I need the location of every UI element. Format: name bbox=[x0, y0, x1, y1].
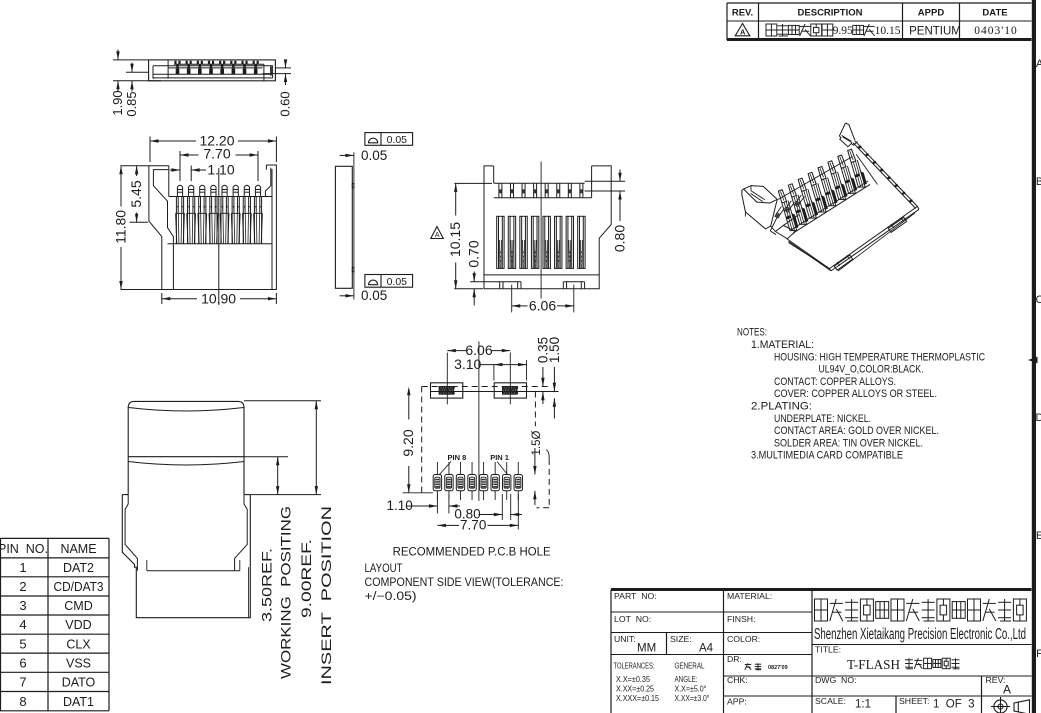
svg-text:3: 3 bbox=[19, 598, 26, 613]
svg-text:A: A bbox=[1036, 58, 1041, 70]
svg-text:X.XX=±3.0°: X.XX=±3.0° bbox=[675, 693, 710, 703]
svg-text:0.05: 0.05 bbox=[361, 288, 387, 303]
svg-text:DESCRIPTION: DESCRIPTION bbox=[798, 8, 863, 19]
svg-text:9.95: 9.95 bbox=[833, 25, 853, 37]
svg-text:0.80: 0.80 bbox=[611, 225, 627, 252]
svg-text:MATERIAL:: MATERIAL: bbox=[727, 591, 772, 601]
svg-text:B: B bbox=[1036, 176, 1041, 188]
svg-text:CONTACT AREA: GOLD OVER NICKEL: CONTACT AREA: GOLD OVER NICKEL. bbox=[774, 425, 939, 437]
svg-text:1: 1 bbox=[19, 560, 26, 575]
svg-text:A4: A4 bbox=[699, 643, 714, 655]
svg-text:7.70: 7.70 bbox=[203, 146, 230, 162]
svg-text:CHK:: CHK: bbox=[727, 675, 748, 685]
svg-text:DWG NO:: DWG NO: bbox=[815, 675, 857, 685]
svg-text:SHEET:: SHEET: bbox=[899, 696, 929, 706]
svg-text:APPD: APPD bbox=[918, 8, 945, 19]
svg-text:3.MULTIMEDIA CARD COMPATIBLE: 3.MULTIMEDIA CARD COMPATIBLE bbox=[751, 450, 903, 462]
svg-text:PART NO:: PART NO: bbox=[614, 591, 657, 601]
svg-text:0.05: 0.05 bbox=[361, 148, 387, 163]
svg-text:PIN 8: PIN 8 bbox=[448, 453, 467, 462]
svg-text:10.15: 10.15 bbox=[875, 25, 901, 37]
svg-text:F: F bbox=[1036, 648, 1041, 660]
svg-text:X.X=±0.35: X.X=±0.35 bbox=[616, 674, 650, 684]
svg-text:2: 2 bbox=[19, 579, 26, 594]
svg-text:COLOR:: COLOR: bbox=[727, 634, 760, 644]
svg-text:1.5Ø: 1.5Ø bbox=[531, 430, 543, 455]
svg-text:0.05: 0.05 bbox=[387, 134, 408, 146]
svg-text:CD/DAT3: CD/DAT3 bbox=[54, 580, 104, 594]
svg-text:1.90: 1.90 bbox=[110, 90, 125, 115]
svg-text:MM: MM bbox=[637, 643, 656, 655]
svg-text:A: A bbox=[1003, 683, 1011, 697]
svg-text:0.85: 0.85 bbox=[124, 91, 139, 116]
svg-text:HOUSING: HIGH TEMPERATURE THER: HOUSING: HIGH TEMPERATURE THERMOPLASTIC bbox=[774, 351, 985, 363]
svg-text:NAME: NAME bbox=[60, 542, 96, 556]
svg-text:PIN 1: PIN 1 bbox=[490, 453, 509, 462]
svg-text:TOLERANCES:: TOLERANCES: bbox=[614, 661, 655, 671]
svg-text:CMD: CMD bbox=[64, 599, 92, 613]
svg-text:APP:: APP: bbox=[727, 697, 747, 707]
svg-text:VDD: VDD bbox=[65, 618, 91, 632]
svg-text:SOLDER AREA: TIN OVER NICKEL.: SOLDER AREA: TIN OVER NICKEL. bbox=[774, 437, 923, 449]
svg-text:UNIT:: UNIT: bbox=[614, 634, 636, 644]
svg-text:DATE: DATE bbox=[982, 8, 1007, 19]
svg-text:UL94V_O,COLOR:BLACK.: UL94V_O,COLOR:BLACK. bbox=[819, 364, 924, 376]
svg-text:7: 7 bbox=[19, 675, 26, 690]
svg-text:ANGLE:: ANGLE: bbox=[675, 674, 698, 684]
svg-text:CLX: CLX bbox=[66, 637, 91, 651]
svg-text:E: E bbox=[1036, 530, 1041, 542]
svg-text:GENERAL: GENERAL bbox=[675, 661, 705, 671]
svg-text:3.10: 3.10 bbox=[454, 356, 481, 372]
svg-text:LOT NO:: LOT NO: bbox=[614, 614, 651, 624]
svg-text:1.50: 1.50 bbox=[547, 337, 562, 363]
svg-text:8: 8 bbox=[19, 694, 26, 709]
svg-text:9.00REF.: 9.00REF. bbox=[299, 539, 314, 618]
svg-text:A: A bbox=[740, 27, 746, 36]
svg-text:D: D bbox=[1036, 412, 1041, 424]
svg-text:C: C bbox=[1036, 294, 1041, 306]
svg-text:COMPONENT SIDE VIEW(TOLERANC: COMPONENT SIDE VIEW(TOLERANCE: bbox=[365, 577, 564, 589]
svg-text:11.80: 11.80 bbox=[112, 210, 128, 244]
svg-text:6: 6 bbox=[19, 655, 26, 670]
svg-text:6.06: 6.06 bbox=[529, 298, 556, 314]
svg-text:0403'10: 0403'10 bbox=[974, 25, 1018, 37]
svg-text:4: 4 bbox=[19, 617, 26, 632]
svg-text:SIZE:: SIZE: bbox=[670, 634, 692, 644]
svg-text:T-FLASH: T-FLASH bbox=[847, 657, 900, 672]
svg-text:0.05: 0.05 bbox=[387, 276, 408, 288]
svg-text:COVER: COPPER ALLOYS OR STEEL.: COVER: COPPER ALLOYS OR STEEL. bbox=[774, 388, 937, 400]
svg-text:NOTES:: NOTES: bbox=[737, 327, 767, 339]
svg-text:X.XX=±0.25: X.XX=±0.25 bbox=[616, 684, 654, 694]
svg-text:RECOMMENDED P.C.B HOLE: RECOMMENDED P.C.B HOLE bbox=[393, 547, 551, 559]
svg-text:+/−0.05): +/−0.05) bbox=[365, 591, 417, 603]
svg-text:2.PLATING:: 2.PLATING: bbox=[751, 401, 812, 413]
svg-text:1.MATERIAL:: 1.MATERIAL: bbox=[751, 339, 814, 351]
svg-text:REV.: REV. bbox=[732, 8, 753, 19]
svg-text:UNDERPLATE: NICKEL.: UNDERPLATE: NICKEL. bbox=[774, 413, 871, 425]
svg-text:10.15: 10.15 bbox=[447, 222, 463, 257]
svg-text:X.X=±5.0°: X.X=±5.0° bbox=[675, 684, 707, 694]
svg-text:X.XXX=±0.15: X.XXX=±0.15 bbox=[616, 693, 659, 703]
svg-text:5: 5 bbox=[19, 636, 26, 651]
svg-text:0827'09: 0827'09 bbox=[768, 665, 788, 671]
svg-text:FINSH:: FINSH: bbox=[727, 614, 755, 624]
svg-text:Shenzhen Xietaikang Precision: Shenzhen Xietaikang Precision Electronic… bbox=[814, 626, 1026, 643]
svg-text:INSERT POSITION: INSERT POSITION bbox=[319, 506, 334, 685]
svg-text:1.10: 1.10 bbox=[207, 162, 234, 178]
svg-text:LAYOUT: LAYOUT bbox=[365, 563, 403, 575]
svg-text:10.90: 10.90 bbox=[201, 290, 236, 306]
svg-text:1.10: 1.10 bbox=[387, 498, 413, 513]
svg-text:0.60: 0.60 bbox=[278, 91, 293, 116]
svg-text:DAT2: DAT2 bbox=[63, 561, 94, 575]
svg-text:3.50REF.: 3.50REF. bbox=[260, 548, 275, 622]
svg-text:PIN NO.: PIN NO. bbox=[0, 542, 48, 556]
svg-text:9.20: 9.20 bbox=[400, 429, 416, 456]
svg-text:1 OF 3: 1 OF 3 bbox=[933, 699, 975, 711]
svg-text:1:1: 1:1 bbox=[855, 699, 871, 711]
svg-text:VSS: VSS bbox=[66, 656, 91, 670]
svg-text:DATO: DATO bbox=[62, 676, 96, 690]
svg-text:0.70: 0.70 bbox=[466, 240, 482, 267]
svg-text:5.45: 5.45 bbox=[128, 180, 144, 207]
svg-text:PENTIUM: PENTIUM bbox=[909, 26, 961, 38]
svg-text:CONTACT: COPPER ALLOYS.: CONTACT: COPPER ALLOYS. bbox=[774, 376, 896, 388]
svg-text:SCALE:: SCALE: bbox=[815, 696, 846, 706]
svg-text:TITLE:: TITLE: bbox=[815, 645, 841, 655]
svg-text:WORKING POSITING: WORKING POSITING bbox=[279, 506, 294, 679]
svg-text:7.70: 7.70 bbox=[460, 518, 486, 533]
svg-text:A: A bbox=[435, 232, 440, 239]
svg-text:DR:: DR: bbox=[727, 654, 742, 664]
svg-text:DAT1: DAT1 bbox=[63, 695, 94, 709]
